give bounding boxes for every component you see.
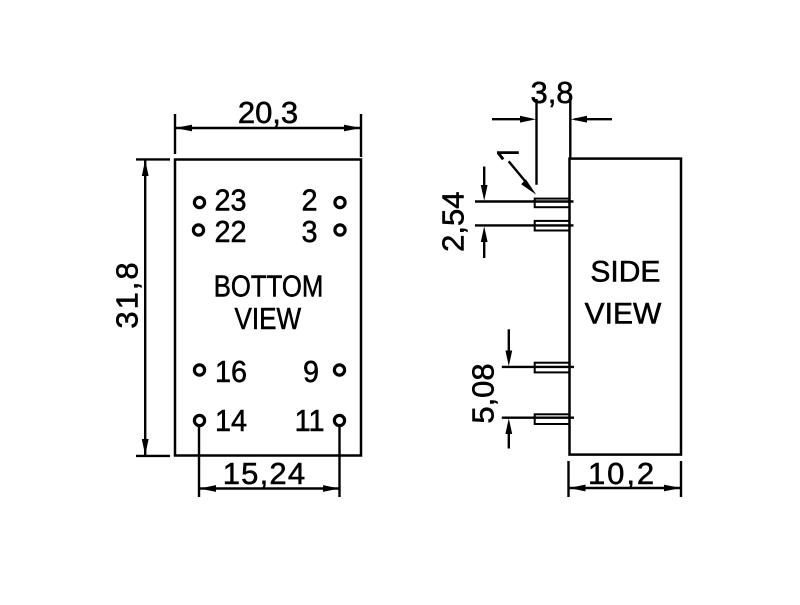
dim 31,8 arrow bottom — [142, 439, 149, 455]
dim 5,08 upper arrow line — [508, 329, 510, 353]
dim 31,8 dimension line — [144, 160, 146, 455]
dim 2,54 lower arrow line — [483, 241, 485, 258]
dim 10,2 arrow right — [664, 485, 681, 492]
svg-text:16: 16 — [215, 355, 247, 389]
pin 4 centerline — [502, 417, 574, 419]
side pin 3 — [535, 363, 570, 373]
side pin 1 — [535, 199, 570, 208]
dim 5,08 lower arrowhead (up) — [505, 418, 512, 434]
dim 31,8 extension line top — [136, 158, 170, 160]
pin 14 hole — [194, 415, 204, 425]
dim 31,8 arrow top — [142, 160, 149, 176]
svg-text:15,24: 15,24 — [223, 456, 307, 491]
dim 2,54 upper arrowhead (down) — [481, 185, 488, 201]
pin 2 hole — [335, 197, 345, 207]
dim 15,24 dimension line — [200, 487, 339, 489]
pin1 marker digit 1 (rotated, drawn) — [497, 151, 519, 154]
pin 2 centerline — [475, 224, 574, 226]
dim 3,8 dimension line left part — [492, 118, 531, 120]
dim 15,24 extension line left — [198, 425, 200, 497]
dim 10,2 extension line right — [680, 461, 682, 497]
dim 10,2 dimension line — [570, 487, 681, 489]
dim 10,2 arrow left — [569, 485, 586, 492]
dim 10,2 extension line left — [567, 461, 569, 497]
svg-text:9: 9 — [303, 355, 319, 389]
dim 3,8 arrow right (points left) — [571, 116, 587, 123]
dim 3,8 extension line right (body face) — [569, 99, 571, 159]
dim 2,54 upper arrow line — [483, 167, 485, 189]
pin 3 hole — [335, 225, 345, 235]
pin1 leader arrow shaft — [509, 161, 525, 181]
side pin 2 — [535, 221, 570, 231]
pin 11 hole — [334, 415, 344, 425]
svg-text:3: 3 — [301, 215, 317, 249]
dim 15,24 arrow left — [200, 485, 217, 492]
svg-text:10,2: 10,2 — [588, 456, 656, 491]
dim 3,8 dimension line right part — [575, 118, 612, 120]
svg-text:14: 14 — [215, 404, 247, 438]
pin 9 hole — [334, 365, 344, 375]
pin 1 centerline — [475, 200, 574, 202]
bottom view body outline — [175, 160, 361, 456]
svg-text:BOTTOM: BOTTOM — [214, 269, 324, 304]
dim 20,3 extension line right — [360, 114, 362, 157]
svg-text:5,08: 5,08 — [466, 363, 501, 423]
svg-text:2: 2 — [301, 184, 317, 218]
dim 20,3 arrow left — [176, 125, 193, 132]
dim 31,8 extension line bottom — [136, 455, 170, 457]
dim 3,8 arrow left (points right) — [520, 116, 536, 123]
dim 5,08 lower arrow line — [508, 433, 510, 449]
svg-text:SIDE: SIDE — [590, 256, 660, 289]
dim 3,8 extension line left (pin tip) — [535, 99, 537, 185]
svg-text:VIEW: VIEW — [585, 298, 662, 331]
svg-text:31,8: 31,8 — [110, 260, 145, 328]
svg-text:23: 23 — [215, 184, 247, 218]
side pin 4 — [535, 414, 570, 424]
svg-text:22: 22 — [215, 215, 247, 249]
svg-text:20,3: 20,3 — [238, 95, 298, 130]
dim 20,3 extension line left — [174, 114, 176, 154]
dim 2,54 lower arrowhead (up) — [481, 226, 488, 242]
pin1 leader arrowhead — [521, 179, 536, 195]
dim 15,24 arrow right — [323, 485, 339, 492]
dim 15,24 extension line right — [338, 425, 340, 497]
svg-text:2,54: 2,54 — [436, 192, 471, 252]
svg-text:11: 11 — [295, 404, 325, 438]
pin 16 hole — [194, 365, 204, 375]
side view body outline — [570, 159, 682, 455]
dim 20,3 arrow right — [344, 125, 361, 132]
svg-text:3,8: 3,8 — [530, 75, 573, 110]
dim 5,08 upper arrowhead (down) — [505, 351, 512, 367]
svg-text:VIEW: VIEW — [235, 302, 302, 337]
dim 20,3 dimension line — [176, 127, 360, 129]
pin 22 hole — [193, 225, 203, 235]
pin 23 hole — [194, 197, 204, 207]
pin 3 centerline — [502, 366, 574, 368]
